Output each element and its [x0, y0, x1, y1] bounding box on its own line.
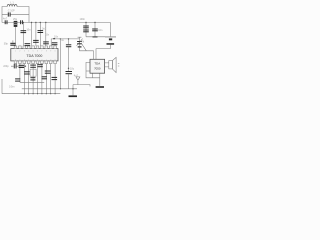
- svg-text:7: 7: [19, 59, 20, 61]
- svg-text:C 10P: C 10P: [8, 10, 15, 13]
- svg-text:4n7: 4n7: [3, 17, 8, 20]
- svg-text:100n: 100n: [80, 18, 86, 21]
- svg-text:5: 5: [33, 50, 34, 52]
- svg-text:4u7: 4u7: [74, 74, 79, 77]
- svg-text:6: 6: [37, 50, 38, 52]
- svg-text:7: 7: [41, 50, 42, 52]
- svg-text:10u: 10u: [70, 67, 75, 70]
- svg-text:4: 4: [28, 50, 29, 52]
- svg-text:39p: 39p: [4, 43, 9, 46]
- svg-text:3n3: 3n3: [42, 27, 47, 30]
- svg-text:10n: 10n: [54, 36, 59, 39]
- svg-text:5: 5: [28, 59, 29, 61]
- svg-text:10n: 10n: [45, 33, 50, 36]
- svg-text:6: 6: [24, 59, 25, 61]
- svg-text:7050: 7050: [94, 67, 101, 71]
- svg-text:9: 9: [55, 59, 56, 61]
- svg-text:0: 0: [50, 59, 51, 61]
- svg-text:2: 2: [19, 50, 20, 52]
- svg-text:10n: 10n: [26, 29, 31, 32]
- svg-text:8: 8: [15, 59, 16, 61]
- svg-text:TDA 7000: TDA 7000: [26, 54, 42, 58]
- svg-text:220p: 220p: [3, 65, 9, 68]
- svg-text:9: 9: [50, 50, 51, 52]
- svg-text:0.5m: 0.5m: [9, 86, 14, 89]
- svg-text:3: 3: [37, 59, 38, 61]
- svg-text:25p: 25p: [13, 18, 18, 21]
- svg-text:0: 0: [55, 50, 56, 52]
- svg-text:4: 4: [33, 59, 34, 61]
- svg-text:TDA: TDA: [94, 62, 100, 66]
- svg-text:10n: 10n: [98, 29, 103, 32]
- svg-text:1: 1: [46, 59, 47, 61]
- svg-text:2: 2: [41, 59, 42, 61]
- svg-text:8: 8: [46, 50, 47, 52]
- svg-text:3: 3: [24, 50, 25, 52]
- svg-text:1: 1: [15, 50, 16, 52]
